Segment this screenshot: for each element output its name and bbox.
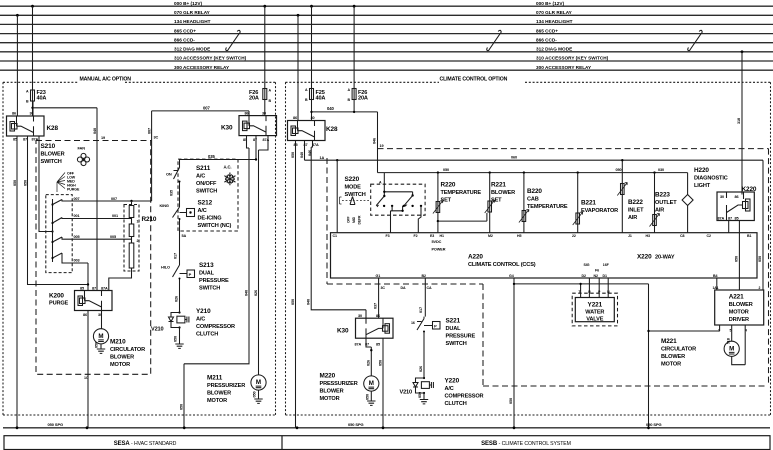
svg-text:87A: 87A: [101, 286, 108, 290]
svg-text:87: 87: [728, 217, 732, 221]
svg-text:CIRCULATOR: CIRCULATOR: [110, 347, 145, 353]
svg-text:DE-ICING: DE-ICING: [198, 216, 222, 222]
svg-text:134 HEADLIGHT: 134 HEADLIGHT: [536, 19, 573, 24]
svg-text:134 HEADLIGHT: 134 HEADLIGHT: [174, 19, 211, 24]
svg-text:H1: H1: [440, 234, 444, 238]
svg-text:005: 005: [74, 235, 80, 239]
svg-text:B223: B223: [655, 192, 670, 199]
svg-text:DUAL: DUAL: [446, 326, 462, 332]
svg-text:866 CCD-: 866 CCD-: [536, 37, 557, 42]
svg-text:026: 026: [254, 290, 258, 296]
svg-text:FAN: FAN: [78, 146, 86, 151]
svg-text:003: 003: [74, 259, 80, 263]
svg-text:050: 050: [95, 342, 99, 348]
svg-text:3C: 3C: [381, 286, 386, 290]
svg-text:Y220: Y220: [445, 378, 460, 385]
svg-text:B1: B1: [747, 234, 751, 238]
svg-text:M2: M2: [488, 234, 493, 238]
svg-text:22: 22: [572, 234, 576, 238]
svg-text:F3: F3: [386, 234, 390, 238]
svg-text:DEFR: DEFR: [358, 215, 362, 224]
svg-text:K220: K220: [742, 186, 757, 193]
svg-text:19: 19: [101, 136, 105, 140]
svg-text:KING: KING: [160, 203, 169, 208]
svg-text:19: 19: [380, 144, 384, 148]
svg-text:1: 1: [137, 220, 139, 224]
svg-text:MOTOR: MOTOR: [207, 398, 227, 404]
svg-text:86: 86: [376, 314, 380, 318]
svg-text:ON/OFF: ON/OFF: [196, 181, 217, 187]
svg-text:SWITCH: SWITCH: [41, 159, 62, 165]
svg-text:20-WAY: 20-WAY: [655, 255, 675, 261]
svg-text:SWITCH: SWITCH: [345, 192, 366, 198]
svg-text:DUAL: DUAL: [199, 271, 215, 277]
svg-text:000 B+ (12V): 000 B+ (12V): [536, 1, 564, 6]
svg-text:030: 030: [658, 168, 664, 172]
svg-text:D1: D1: [603, 274, 607, 278]
svg-text:005: 005: [110, 235, 116, 239]
svg-text:026: 026: [419, 366, 423, 372]
svg-text:CLIMATE CONTROL (CCS): CLIMATE CONTROL (CCS): [468, 262, 536, 268]
svg-text:OFF: OFF: [347, 216, 351, 223]
svg-text:DA: DA: [401, 286, 406, 290]
svg-text:040: 040: [93, 128, 97, 134]
svg-text:HILO: HILO: [161, 265, 170, 270]
svg-text:2: 2: [137, 239, 139, 243]
svg-text:050: 050: [365, 394, 369, 400]
svg-text:P: P: [434, 324, 437, 329]
svg-text:M220: M220: [320, 373, 336, 380]
svg-text:30: 30: [720, 195, 724, 199]
svg-text:A/C: A/C: [198, 208, 207, 214]
svg-text:G1: G1: [376, 274, 381, 278]
svg-text:WATER: WATER: [585, 310, 604, 316]
svg-text:V210: V210: [400, 390, 413, 396]
svg-text:060: 060: [511, 156, 517, 160]
svg-text:H3: H3: [646, 234, 650, 238]
svg-text:B220: B220: [527, 188, 542, 195]
svg-text:EVAPORATOR: EVAPORATOR: [581, 208, 618, 214]
svg-text:SESB - CLIMATE CONTROL SYSTEM: SESB - CLIMATE CONTROL SYSTEM: [481, 441, 571, 447]
svg-text:318: 318: [737, 118, 741, 124]
svg-text:040: 040: [307, 299, 311, 305]
svg-text:001: 001: [112, 214, 118, 218]
svg-text:85: 85: [80, 286, 84, 290]
svg-text:MOTOR: MOTOR: [729, 310, 749, 316]
svg-text:C8: C8: [680, 234, 684, 238]
svg-text:PURGE: PURGE: [67, 188, 80, 192]
svg-text:K30: K30: [221, 125, 233, 132]
svg-text:87: 87: [23, 137, 27, 141]
svg-text:86: 86: [12, 112, 16, 116]
svg-text:COMPRESSOR: COMPRESSOR: [445, 394, 484, 400]
svg-text:16F: 16F: [603, 263, 610, 267]
svg-text:B4: B4: [713, 274, 717, 278]
svg-text:312 DIAG MODE: 312 DIAG MODE: [174, 47, 210, 52]
svg-text:OUTLET: OUTLET: [655, 200, 677, 206]
svg-text:035: 035: [170, 190, 174, 196]
svg-text:007: 007: [148, 128, 152, 134]
svg-text:85: 85: [376, 342, 380, 346]
svg-text:C1: C1: [333, 234, 337, 238]
svg-text:40A: 40A: [316, 96, 326, 102]
svg-text:K28: K28: [47, 125, 59, 132]
svg-text:DIAGNOSTIC: DIAGNOSTIC: [694, 176, 728, 182]
svg-text:86: 86: [293, 116, 297, 120]
svg-text:87A: 87A: [355, 342, 362, 346]
svg-text:Y210: Y210: [196, 308, 211, 315]
svg-text:BLOWER: BLOWER: [661, 354, 685, 360]
svg-text:000 B+ (12V): 000 B+ (12V): [174, 1, 202, 6]
svg-text:86: 86: [83, 313, 87, 317]
svg-text:035: 035: [208, 154, 215, 159]
svg-text:30: 30: [311, 116, 315, 120]
svg-text:COMPRESSOR: COMPRESSOR: [196, 324, 235, 330]
svg-text:D2: D2: [582, 274, 586, 278]
svg-text:CLUTCH: CLUTCH: [445, 401, 467, 407]
svg-text:K30: K30: [337, 328, 349, 335]
svg-text:S220: S220: [345, 176, 360, 183]
svg-text:050: 050: [418, 392, 422, 398]
svg-text:2: 2: [759, 286, 761, 290]
svg-text:SESA - HVAC STANDARD: SESA - HVAC STANDARD: [114, 441, 177, 447]
svg-text:20A: 20A: [358, 96, 368, 102]
svg-text:CAB: CAB: [527, 197, 539, 203]
svg-text:M221: M221: [661, 338, 677, 345]
svg-text:F2: F2: [414, 234, 418, 238]
svg-text:BLOWER: BLOWER: [320, 389, 344, 395]
svg-text:017: 017: [419, 307, 423, 313]
svg-text:050 SPG: 050 SPG: [646, 422, 662, 427]
svg-text:AIR: AIR: [655, 208, 664, 214]
svg-text:VALVE: VALVE: [586, 317, 603, 323]
svg-text:20A: 20A: [249, 96, 259, 102]
svg-text:MODE: MODE: [345, 185, 362, 191]
svg-text:S212: S212: [198, 200, 213, 207]
svg-text:5A: 5A: [182, 234, 187, 238]
svg-text:037: 037: [374, 303, 378, 309]
svg-text:A/C: A/C: [196, 317, 205, 323]
svg-text:V210: V210: [151, 327, 164, 333]
svg-text:026: 026: [175, 296, 179, 302]
svg-text:050: 050: [24, 180, 28, 186]
svg-text:5VDC: 5VDC: [432, 240, 442, 244]
svg-text:N2: N2: [594, 274, 598, 278]
svg-text:865 CCD+: 865 CCD+: [536, 28, 558, 33]
svg-text:007: 007: [111, 197, 117, 201]
svg-text:050: 050: [735, 256, 739, 262]
svg-text:CIRCULATOR: CIRCULATOR: [661, 347, 696, 353]
svg-text:DRIVER: DRIVER: [729, 317, 749, 323]
svg-text:H220: H220: [694, 167, 709, 174]
svg-text:PRESSURE: PRESSURE: [446, 334, 476, 340]
svg-text:LIGHT: LIGHT: [694, 183, 711, 189]
svg-text:050: 050: [180, 404, 184, 410]
svg-text:TEMPERATURE: TEMPERATURE: [527, 204, 568, 210]
svg-text:017: 017: [174, 253, 178, 259]
svg-text:87A: 87A: [312, 143, 319, 147]
svg-text:040: 040: [327, 106, 334, 111]
svg-text:050: 050: [378, 360, 382, 366]
svg-text:B222: B222: [628, 199, 643, 206]
svg-text:TEMPERATURE: TEMPERATURE: [441, 190, 482, 196]
svg-text:B221: B221: [581, 200, 596, 207]
svg-text:050: 050: [291, 152, 295, 158]
svg-text:87: 87: [92, 286, 96, 290]
svg-text:050 SPG: 050 SPG: [48, 422, 64, 427]
svg-text:PRESSURIZER: PRESSURIZER: [320, 381, 358, 387]
svg-text:M210: M210: [110, 339, 126, 346]
svg-text:S211: S211: [196, 165, 211, 172]
svg-text:ON: ON: [166, 172, 172, 177]
svg-text:SWITCH: SWITCH: [196, 189, 217, 195]
svg-text:MOTOR: MOTOR: [320, 396, 340, 402]
svg-text:X220: X220: [637, 254, 652, 261]
svg-text:050: 050: [509, 398, 513, 404]
svg-text:S213: S213: [199, 262, 214, 269]
svg-text:87A: 87A: [718, 217, 725, 221]
svg-text:CLUTCH: CLUTCH: [196, 332, 218, 338]
svg-text:046: 046: [372, 138, 376, 144]
svg-text:050: 050: [758, 256, 762, 262]
svg-text:070 GLR RELAY: 070 GLR RELAY: [536, 10, 573, 15]
svg-text:050: 050: [443, 168, 449, 172]
svg-text:BLOWER: BLOWER: [110, 355, 134, 361]
svg-text:1A1: 1A1: [713, 286, 719, 290]
svg-text:85: 85: [13, 137, 17, 141]
svg-text:G4: G4: [509, 274, 514, 278]
svg-text:S210: S210: [41, 143, 56, 150]
svg-text:BLOWER: BLOWER: [491, 190, 515, 196]
svg-text:PURGE: PURGE: [49, 301, 69, 307]
svg-text:F6: F6: [595, 269, 599, 273]
svg-text:INLET: INLET: [628, 208, 644, 214]
svg-text:A221: A221: [729, 294, 744, 301]
svg-text:P: P: [189, 272, 192, 277]
svg-text:312 DIAG MODE: 312 DIAG MODE: [536, 47, 572, 52]
svg-text:866 CCD-: 866 CCD-: [174, 37, 195, 42]
svg-text:SWITCH: SWITCH: [199, 286, 220, 292]
svg-text:A/C: A/C: [445, 386, 454, 392]
svg-text:40A: 40A: [37, 96, 47, 102]
svg-text:E3: E3: [430, 234, 434, 238]
svg-text:007: 007: [203, 105, 210, 110]
svg-text:SWITCH: SWITCH: [446, 341, 467, 347]
svg-text:Y221: Y221: [588, 302, 603, 309]
svg-text:SIG: SIG: [584, 263, 590, 267]
svg-text:M211: M211: [207, 375, 223, 382]
svg-text:CLIMATE CONTROL OPTION: CLIMATE CONTROL OPTION: [440, 77, 508, 83]
svg-text:AIR: AIR: [628, 215, 637, 221]
svg-text:B2: B2: [422, 274, 426, 278]
svg-text:30: 30: [262, 111, 266, 115]
svg-text:K200: K200: [49, 293, 64, 300]
svg-text:C2: C2: [707, 234, 711, 238]
svg-text:BLOWER: BLOWER: [729, 302, 753, 308]
svg-text:MID: MID: [352, 216, 356, 223]
svg-text:050: 050: [174, 336, 178, 342]
svg-text:PRESSURIZER: PRESSURIZER: [207, 383, 245, 389]
svg-text:SWITCH (NC): SWITCH (NC): [198, 223, 232, 229]
svg-text:R221: R221: [491, 182, 506, 189]
svg-text:30: 30: [358, 314, 362, 318]
svg-text:1A: 1A: [320, 156, 325, 160]
svg-text:86: 86: [245, 111, 249, 115]
svg-text:040: 040: [245, 290, 249, 296]
svg-text:300 ACCESSORY RELAY: 300 ACCESSORY RELAY: [536, 65, 592, 70]
svg-text:050: 050: [13, 180, 17, 186]
svg-text:16: 16: [411, 321, 415, 325]
svg-text:050: 050: [616, 168, 622, 172]
svg-text:BLOWER: BLOWER: [41, 152, 65, 158]
svg-text:K28: K28: [326, 126, 338, 133]
svg-text:H5: H5: [517, 234, 521, 238]
svg-text:R210: R210: [142, 216, 157, 223]
svg-text:MANUAL A/C OPTION: MANUAL A/C OPTION: [80, 77, 132, 83]
svg-text:S221: S221: [446, 318, 461, 325]
svg-text:PRESSURE: PRESSURE: [199, 278, 229, 284]
svg-text:A/C: A/C: [196, 174, 205, 180]
svg-text:050 SPG: 050 SPG: [348, 422, 364, 427]
svg-text:CA: CA: [427, 286, 432, 290]
svg-text:MOTOR: MOTOR: [110, 362, 130, 368]
svg-text:3C: 3C: [154, 135, 159, 139]
svg-text:310 ACCESSORY (KEY SWITCH): 310 ACCESSORY (KEY SWITCH): [536, 56, 609, 61]
svg-text:310 ACCESSORY (KEY SWITCH): 310 ACCESSORY (KEY SWITCH): [174, 56, 247, 61]
svg-text:046: 046: [308, 150, 312, 156]
svg-text:026: 026: [367, 360, 371, 366]
svg-text:J1: J1: [628, 234, 632, 238]
svg-text:040: 040: [300, 152, 304, 158]
svg-text:050: 050: [291, 299, 295, 305]
svg-text:A.C.: A.C.: [224, 165, 232, 170]
svg-text:070 GLR RELAY: 070 GLR RELAY: [174, 10, 211, 15]
svg-text:86: 86: [735, 195, 739, 199]
svg-text:MOTOR: MOTOR: [661, 362, 681, 368]
svg-text:300 ACCESSORY RELAY: 300 ACCESSORY RELAY: [174, 65, 230, 70]
svg-text:050: 050: [253, 391, 257, 397]
svg-text:BLOWER: BLOWER: [207, 391, 231, 397]
svg-text:POWER: POWER: [432, 248, 446, 252]
svg-text:865 CCD+: 865 CCD+: [174, 28, 196, 33]
svg-text:85: 85: [735, 217, 739, 221]
svg-text:007: 007: [74, 197, 80, 201]
svg-text:A220: A220: [468, 254, 483, 261]
svg-text:R220: R220: [441, 182, 456, 189]
svg-text:001: 001: [74, 214, 80, 218]
